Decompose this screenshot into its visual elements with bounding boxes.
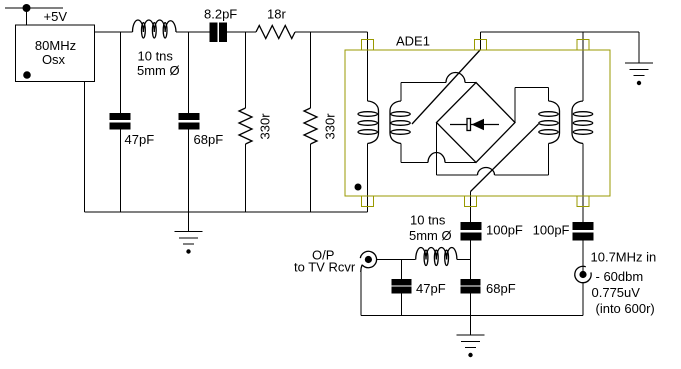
capacitor 100pF second plates (573, 223, 593, 230)
svg-text:100pF: 100pF (533, 223, 570, 238)
wire 47pF bottom junction (400, 260, 402, 280)
svg-text:0.775uV: 0.775uV (592, 285, 641, 300)
wire left secondary top vertical (400, 83, 402, 102)
ADE1 pin1 dot (355, 184, 362, 191)
wire +5V feed (5, 7, 63, 9)
ground rail bottom section (361, 315, 583, 317)
transformer T2 primary loops (573, 112, 592, 117)
wire 100pF first down to 68pF (470, 240, 472, 279)
wire rail down to ground (638, 32, 640, 63)
connector O/P center dot (365, 256, 372, 263)
wire 18r to ADE1 pin 1 (295, 31, 368, 33)
inductor L1 loops (142, 23, 146, 38)
capacitor 100pF first plates (461, 223, 481, 230)
wire left secondary bottom horizontal (401, 162, 428, 164)
ADE1 pin bottom 3 (577, 196, 589, 207)
ground symbol top right (625, 63, 653, 76)
wire 8.2pF to 18r (227, 31, 257, 33)
svg-text:47pF: 47pF (125, 132, 155, 147)
wire connector left tail vertical (360, 272, 362, 316)
transformer T1 primary hooks (368, 101, 379, 144)
transformer T2 secondary loops (539, 112, 558, 117)
svg-text:330r: 330r (258, 113, 273, 140)
transformer T2 primary hooks (572, 101, 583, 144)
wire node B down to C 68pF (188, 32, 190, 114)
svg-text:100pF: 100pF (486, 223, 523, 238)
wire hop over diag B (478, 168, 495, 176)
oscillator box 80MHz Osx (16, 25, 95, 82)
svg-text:80MHz: 80MHz (35, 38, 76, 53)
wire after hop to diamond top (465, 82, 476, 84)
wire 68pF to ground rail (188, 129, 190, 212)
wire ADE1 top pin2 vertical (480, 32, 482, 50)
wire ground stub (188, 212, 190, 232)
wire diag B bottom vertical (470, 192, 472, 223)
wire oscillator bottom to ground rail (84, 82, 86, 213)
ADE1 pin bottom 2 (465, 196, 477, 207)
wire +5V drop to oscillator (26, 8, 28, 25)
wire 47pF to ground rail (120, 129, 122, 212)
diode D1 line (450, 124, 499, 126)
svg-text:10.7MHz in: 10.7MHz in (591, 250, 657, 265)
wire coil exit to node (457, 259, 471, 261)
diode ring diamond (437, 83, 516, 163)
oscillator pin1 dot (23, 71, 31, 79)
svg-text:Osx: Osx (42, 52, 66, 67)
ADE1 pin top 1 (362, 40, 374, 51)
ADE1 package outline (345, 50, 610, 196)
wire oscillator output (95, 31, 133, 33)
wire right primary bottom to 100pF (582, 144, 584, 223)
wire 47pF bottom to rail (400, 293, 402, 316)
svg-text:68pF: 68pF (194, 132, 224, 147)
inductor L2 bottom bumps (416, 248, 457, 260)
wire node A down to C 47pF (120, 32, 122, 114)
wire after hop2 to diamond bottom (445, 162, 476, 164)
diode D1 cathode bar (467, 119, 471, 131)
capacitor 68pF plates (179, 114, 199, 120)
connector right center dot (579, 271, 586, 278)
wire top right rail (481, 31, 640, 33)
ground rail bottom left (85, 211, 368, 213)
wire hop over diag A (446, 73, 465, 83)
wire hop over left corner drop (428, 153, 445, 163)
wire diamond left corner down (436, 123, 438, 176)
ADE1 pin bottom 1 (362, 196, 374, 207)
connector right circle (575, 266, 591, 282)
wire node C down to R 330r first (245, 32, 247, 108)
capacitor 68pF bottom plates (461, 279, 480, 285)
transformer T1 secondary hooks (390, 101, 401, 144)
svg-text:5mm Ø: 5mm Ø (409, 228, 452, 243)
inductor L1 10 tns bumps (133, 20, 177, 32)
svg-text:10 tns: 10 tns (410, 213, 446, 228)
inductor L2 loops (424, 250, 428, 265)
ground symbol bottom center (457, 335, 485, 348)
svg-text:330r: 330r (323, 113, 338, 140)
connector O/P tail (361, 265, 362, 272)
wire coil to 8.2pF (176, 31, 210, 33)
ADE1 pin top 3 (577, 40, 589, 51)
diode D1 triangle (472, 119, 485, 131)
wire lower link up to right secondary (548, 144, 550, 176)
wire 330r first to ground rail (245, 144, 247, 212)
junction dot +5V (23, 4, 31, 12)
svg-text:68pF: 68pF (486, 281, 516, 296)
wire 100pF second down to connector (582, 240, 584, 271)
svg-text:47pF: 47pF (416, 281, 446, 296)
svg-text:5mm Ø: 5mm Ø (137, 63, 180, 78)
wire 330r second to ground rail (310, 144, 312, 212)
svg-text:+5V: +5V (44, 9, 68, 24)
diagonal A pin2 to T1 center tap (412, 50, 481, 125)
capacitor 47pF plates (110, 114, 130, 120)
wire lower link right part (495, 174, 549, 176)
svg-text:10 tns: 10 tns (138, 49, 174, 64)
wire O/P connector to filter (377, 259, 416, 261)
connector O/P circle (360, 251, 376, 267)
svg-text:to TV Rcvr: to TV Rcvr (294, 260, 356, 275)
wire ADE1 pin1 top vertical (367, 32, 369, 101)
wire left secondary bottom vertical (400, 144, 402, 163)
svg-text:8.2pF: 8.2pF (204, 7, 237, 22)
wire left secondary top horizontal (401, 82, 446, 84)
svg-text:ADE1: ADE1 (396, 34, 430, 49)
wire 68pF bottom through rail to ground (470, 293, 472, 335)
wire lower link left part (437, 174, 478, 176)
wire left primary bottom to ground rail (367, 144, 369, 213)
diagonal B pin5 to T2 center tap (471, 124, 539, 192)
transformer T1 secondary loops (391, 112, 410, 117)
wire node D down to R 330r second (310, 32, 312, 108)
svg-text:- 60dbm: - 60dbm (596, 269, 644, 284)
capacitor 8.2pF plates (210, 23, 217, 42)
resistor R330 first zigzag (239, 108, 252, 144)
transformer T1 primary loops (358, 112, 377, 117)
svg-text:(into 600r): (into 600r) (596, 301, 655, 316)
svg-text:18r: 18r (267, 7, 286, 22)
wire right connector to rail (582, 283, 584, 316)
ground symbol bottom left (175, 232, 203, 245)
resistor R330 second zigzag (304, 108, 317, 144)
wire right secondary top step (515, 88, 549, 123)
transformer T2 secondary hooks (549, 101, 560, 144)
wire ADE1 pin3 top vertical (582, 32, 584, 101)
ADE1 pin top 2 (475, 40, 487, 51)
capacitor 47pF bottom plates (392, 279, 411, 285)
resistor 18r zigzag (256, 26, 295, 39)
